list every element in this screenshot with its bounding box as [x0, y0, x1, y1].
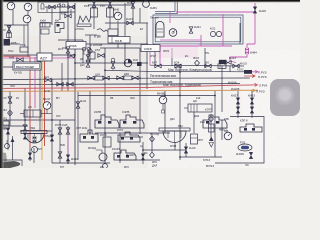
arrow P.RU5 — [250, 89, 265, 94]
box 0P1B — [66, 42, 86, 50]
svg-text:ВОТ1З: ВОТ1З — [206, 165, 214, 168]
comp Klo2 KO2 mid — [124, 58, 141, 67]
valve KN40 below RD1 — [28, 153, 32, 159]
wire h y5 mid — [88, 4, 133, 6]
valve stack x9 — [2, 26, 12, 38]
wire h y25 left — [4, 24, 28, 26]
wire h y84 left stub — [55, 83, 146, 85]
lower big box frame double line — [77, 92, 79, 160]
box annunciator — [13, 62, 41, 70]
box x108 — [107, 8, 114, 17]
comp XP4 on bus — [218, 60, 226, 69]
valve KnV2 — [9, 56, 23, 62]
gauge MN8 — [113, 8, 122, 20]
svg-text:0П25: 0П25 — [163, 50, 170, 53]
wire x8 bottom2 — [7, 130, 9, 150]
svg-text:ВП: ВП — [56, 97, 60, 100]
valve KN27 — [231, 94, 240, 114]
svg-text:ЮЧ: ЮЧ — [205, 52, 209, 55]
wire h y44 K8B — [86, 43, 148, 45]
comp KEPV angular — [240, 119, 262, 133]
svg-text:КН4Б: КН4Б — [170, 145, 177, 148]
svg-text:ДР: ДР — [100, 166, 104, 168]
wire x60 — [59, 3, 61, 20]
bus wire y66 — [150, 64, 244, 67]
wire h y163 bottom — [52, 162, 110, 164]
wire x30 dark lower — [29, 147, 31, 161]
gauge MN11 bottom — [219, 128, 232, 140]
wire x133 — [132, 3, 134, 23]
wire x160 bottom — [151, 133, 153, 152]
small circle on bottom line — [103, 164, 108, 169]
magenta h y46 — [148, 45, 232, 47]
wire x155 — [154, 44, 156, 66]
top letterbox bar — [0, 0, 300, 2]
valve dark triangle x210 — [203, 137, 214, 163]
bus wire y84 — [0, 83, 240, 86]
valve KlB2 small — [68, 54, 74, 58]
cylinder C5 left — [20, 105, 52, 117]
wire h y35 mid — [85, 34, 97, 36]
wire x125 — [124, 3, 126, 66]
valve KN1 top — [127, 1, 135, 8]
wire h y120 left — [3, 119, 75, 121]
wire h y23 mid — [105, 22, 148, 24]
svg-text:ЕУ: ЕУ — [140, 28, 144, 31]
valve KOB left — [1, 126, 10, 134]
small diamond Yu SOD — [150, 132, 160, 142]
wire x230 mid — [229, 66, 231, 72]
angular body KEGSV — [117, 128, 144, 148]
magenta v x170 mid — [169, 12, 171, 23]
magenta v x201 — [200, 35, 202, 46]
valve x112 top — [108, 1, 112, 7]
angular body KE1R3 — [112, 147, 136, 160]
valve stack x88 — [80, 55, 90, 67]
scattered small labels — [8, 5, 229, 169]
valve KN11 on x78 — [76, 99, 86, 108]
valve FO on bus — [205, 61, 211, 68]
valve block top-left — [38, 2, 74, 13]
comp AL7PA — [75, 16, 91, 31]
svg-text:КРЗ: КРЗ — [124, 166, 129, 168]
svg-text:ЗЧ8: ЗЧ8 — [130, 97, 135, 100]
wire x252 pair — [251, 91, 253, 118]
filter small x93 — [88, 48, 93, 54]
wire x13 stem — [12, 10, 14, 25]
arrow L.RU6 — [253, 83, 268, 87]
magenta h y40 in box — [160, 39, 201, 41]
magenta v x223 — [222, 14, 224, 46]
wire h y63 mid — [75, 62, 148, 64]
box right bottom frame — [221, 120, 223, 140]
valve KN53 — [248, 94, 255, 114]
comp KT3 mid — [88, 48, 104, 59]
red vertical x30 — [29, 57, 31, 147]
wire x180 lower long — [179, 66, 181, 160]
valve KN130 — [126, 153, 145, 160]
svg-text:ЮТ: ЮТ — [60, 166, 64, 168]
gauge in box — [169, 29, 177, 37]
comp stack x113 — [111, 58, 115, 70]
box KnV dark — [4, 39, 17, 46]
magenta h y12 top — [176, 11, 255, 13]
svg-text:ЕЧ: ЕЧ — [185, 55, 189, 58]
wire x211 — [210, 114, 212, 137]
valve KN10 on bus A — [233, 62, 247, 68]
wire x90 bottom — [89, 91, 91, 135]
magenta h y58 left — [2, 57, 75, 59]
valve dark bottom x60 — [58, 152, 62, 158]
wire x165 lower — [164, 91, 166, 133]
pink valve pair bottom — [67, 135, 69, 163]
wire x71 stub — [70, 9, 72, 15]
bus wire y72 — [105, 70, 250, 72]
gauge MN9B lower — [157, 92, 167, 114]
small box top-center double line — [155, 2, 177, 14]
valve group ZU8 on bus C — [88, 74, 109, 81]
wire x90 — [89, 35, 91, 63]
comp KR1 left — [2, 117, 9, 130]
wire x83 — [82, 40, 84, 63]
wire x140 — [139, 8, 141, 23]
svg-text:КН17: КН17 — [150, 55, 157, 58]
valve KN21 in box — [189, 25, 201, 33]
wire h y48 mid — [100, 47, 140, 49]
gauge MN1 — [7, 2, 15, 10]
magenta v x150 — [149, 46, 151, 66]
magenta v x232 — [247, 44, 255, 48]
filter KU3 bottom — [144, 151, 158, 168]
wire trunk x40 — [39, 23, 41, 131]
comp KO2 circles in box — [210, 27, 222, 37]
wire h y131 left — [20, 130, 52, 132]
compartment box top-right double line — [153, 15, 243, 44]
valve KN13b — [219, 56, 236, 64]
magenta v x160 mid — [159, 46, 161, 66]
valve KN130 — [184, 146, 196, 153]
wire x28 stem — [27, 11, 29, 57]
pill RS8 — [238, 141, 252, 152]
valve x25 lower — [23, 133, 27, 139]
angular body SE7B — [120, 110, 144, 128]
valve KnCh — [44, 75, 51, 82]
svg-text:РУ9: РУ9 — [100, 5, 105, 8]
comp K3 1B box — [100, 133, 111, 147]
wire x9 — [8, 25, 10, 44]
yellow vertical x42 — [41, 53, 43, 160]
wire trunk x75 — [74, 3, 76, 165]
magenta v x255 — [254, 3, 256, 44]
valve pink bottom — [66, 155, 78, 161]
svg-text:ЮВ: ЮВ — [224, 130, 229, 133]
wire x34 rd1 stem — [33, 148, 35, 163]
comp KR10D — [88, 146, 107, 161]
box right of wavy — [108, 29, 118, 36]
wire x68 bottom — [67, 126, 69, 163]
valve pair x60 x68 top — [55, 123, 70, 134]
valve KN32 bottom right — [236, 152, 253, 159]
svg-text:К19: К19 — [196, 97, 201, 100]
arrow L.RU3 — [244, 70, 267, 75]
comp RT3 — [20, 43, 28, 52]
arrow P.RU3 — [244, 75, 267, 79]
box x93 — [84, 4, 98, 17]
valve KlB small — [61, 12, 71, 18]
wire h y12 left — [60, 11, 75, 13]
paper noise overlay — [0, 0, 300, 168]
filter F4 left — [3, 108, 12, 116]
wire x222 lower — [221, 66, 223, 112]
comp KR3 tall box — [191, 134, 204, 144]
magenta staircase lower — [230, 54, 247, 61]
regulator RD2 — [159, 124, 190, 143]
bus wire y78 — [0, 78, 250, 80]
wire h y95.5 — [78, 95, 215, 97]
wire x240 top segment — [239, 23, 241, 44]
red vertical x44 — [44, 53, 46, 146]
frame right bottom — [215, 117, 264, 164]
valve filled x12.5 — [11, 136, 15, 160]
label K8B — [97, 29, 108, 32]
svg-text:Д30: Д30 — [170, 118, 175, 121]
svg-text:ЗЧВ: ЗЧВ — [60, 144, 65, 147]
wire x25 bottom — [24, 88, 26, 131]
filter FO3 on bus — [193, 56, 199, 66]
valve KN84 — [245, 48, 257, 55]
wire h y7 left — [45, 6, 75, 8]
valve x25 y131 — [23, 125, 27, 131]
comp group y55 mid — [82, 47, 91, 55]
gauge small left bottom — [5, 140, 10, 149]
wire h y160 bottom mid — [120, 159, 160, 161]
box long Yu1B — [108, 37, 130, 44]
wire x118 — [117, 21, 119, 48]
red h y57 left — [2, 55, 31, 57]
wire x238 pair — [237, 91, 239, 118]
box A27 — [37, 53, 52, 61]
wire h y55 left2 — [52, 54, 75, 56]
wire x215 lower long — [214, 91, 216, 157]
magenta h y62 short — [230, 61, 236, 63]
wire x97 — [93, 2, 95, 29]
valves on y84 line left — [57, 82, 73, 86]
wire h y150 mid — [143, 149, 186, 151]
svg-text:КнЧ2: КнЧ2 — [44, 90, 51, 93]
wire x147 long — [146, 23, 148, 89]
valve body KE7P right — [203, 108, 227, 129]
regulator RD1 — [21, 126, 47, 153]
wire h y23 left2 — [40, 22, 52, 24]
wire x143 bottom — [142, 142, 144, 164]
valve KO4 on bus — [174, 61, 181, 68]
angular comp OZT — [76, 126, 98, 142]
orange h y90 — [0, 90, 258, 91]
wire h y133 mid — [95, 132, 170, 134]
valve KN13 — [126, 17, 133, 25]
svg-text:РБ: РБ — [110, 97, 114, 100]
cylinder C8 lower mid — [184, 99, 212, 112]
wire x68 — [67, 3, 69, 92]
wire x10 bottom — [9, 91, 11, 126]
grey watermark rounded square — [270, 79, 300, 116]
wire x62 — [61, 63, 63, 92]
svg-text:ЗЧН: ЗЧН — [37, 148, 42, 151]
wire x205 mid — [204, 48, 206, 66]
svg-text:КО1: КО1 — [58, 48, 63, 51]
wire x120 bottom — [119, 133, 121, 163]
valve KL left — [3, 96, 12, 103]
wire x105 long — [104, 48, 106, 163]
box KE1B white — [141, 45, 160, 52]
pink wash artifact — [156, 44, 198, 58]
wire h y42 left — [4, 43, 20, 45]
wire x112 — [109, 2, 111, 29]
dark smudge bottom-left corner — [0, 161, 20, 168]
wire x172 mid — [171, 48, 173, 66]
gauge MN3 — [23, 15, 31, 23]
valve KN18 top right — [253, 7, 266, 13]
wire x140 lower — [139, 48, 141, 134]
wire x24 RTE stem — [23, 25, 25, 47]
magenta vertical x35 — [34, 57, 36, 108]
wire h y157 mid — [180, 156, 222, 158]
red h y87 long — [0, 85, 253, 89]
wire x52 — [51, 7, 53, 25]
svg-text:ЛУ8: ЛУ8 — [10, 85, 15, 88]
paper background — [0, 0, 300, 168]
wire x60 bottom — [59, 120, 61, 163]
wire x186 — [185, 143, 187, 157]
gauge KN54 — [143, 1, 158, 10]
wire x47 stem — [46, 7, 48, 12]
comp KlM KnG group — [40, 19, 64, 35]
svg-text:ЮЧ2: ЮЧ2 — [8, 50, 14, 53]
wire x52 bottom — [51, 79, 53, 163]
valve group D3 on bus C — [117, 73, 138, 80]
wire h y137 mid2 — [120, 136, 143, 138]
svg-text:Пятигат: Пятигат — [150, 17, 160, 20]
valve x97 top — [92, 1, 96, 7]
wire h y126 left — [3, 125, 28, 127]
svg-text:КЗВ: КЗВ — [224, 118, 229, 121]
wire h y67 left — [3, 66, 40, 68]
tank in box — [156, 22, 164, 38]
wire h y160 left — [0, 160, 22, 166]
gauge MN2 — [24, 3, 32, 11]
wire x205 bottom — [174, 142, 176, 150]
valve KO left of bus — [62, 46, 70, 53]
valve KH7 on bus — [152, 61, 161, 68]
valve x52 dark — [45, 134, 54, 141]
wire x194 lower — [193, 112, 195, 133]
valve x215 y140 — [200, 116, 214, 132]
gauge MN7 — [43, 97, 51, 114]
wire h y55 left — [3, 54, 37, 56]
svg-text:КЧ: КЧ — [16, 97, 19, 100]
valve body KE7B left — [94, 110, 119, 128]
left dark edge band — [0, 0, 4, 168]
wire h y40 mid — [58, 39, 83, 41]
svg-text:ЗУ2: ЗУ2 — [56, 115, 61, 118]
